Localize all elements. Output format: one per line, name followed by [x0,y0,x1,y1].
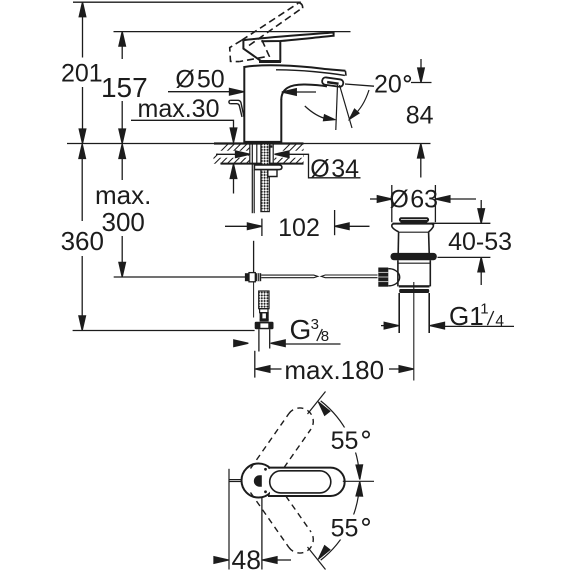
G3/8 threaded stub [259,329,270,351]
mounting nut [268,170,277,177]
dimension 360 [79,144,86,330]
label max.30 with leader [131,120,237,142]
dimension 201 [79,2,86,143]
drain pop-up waste: cap [400,218,428,222]
svg-text:max.: max. [95,180,151,210]
arrow max30 below deck [230,164,237,194]
hose nut G3/8 [255,322,274,329]
svg-text:4: 4 [495,313,504,330]
Ø34 hole arrows and label [218,151,303,158]
dimension max.180 [255,351,414,378]
arrow at spout right edge (Ø50 pair) [282,89,316,96]
svg-text:max.30: max.30 [138,95,220,123]
stream lines 20° [336,85,352,130]
reference line at 360 bottom [73,330,255,332]
svg-text:G: G [290,314,312,345]
deck hatching [206,143,323,166]
drain bottom nut [399,285,430,287]
mounting deck [67,144,431,164]
plan view: lever inner slot [270,471,331,493]
svg-text:20: 20 [374,71,402,99]
dimension 40-53 [431,200,491,285]
label G1 1/4 with arrows [381,322,514,329]
extension line top of raised lever (201 ref) [73,1,301,3]
svg-text:1: 1 [480,300,488,317]
svg-text:3: 3 [311,316,319,333]
dimension 84 [411,59,432,178]
dashed lever rotated down 55° [251,493,314,554]
threaded shank (knurled) [261,144,269,212]
lever handle (rest position) [243,33,333,62]
label 20° with leader [345,84,374,86]
dashed lever rotated up 55° [251,408,314,469]
side pipe right of shank [270,144,273,165]
extension line lever rest top (157 ref) [114,31,351,33]
rod coupling [245,273,261,282]
drain flange and neck [392,224,435,253]
svg-text:Ø34: Ø34 [310,155,359,183]
label G3/8 with arrows [234,340,341,347]
svg-text:300: 300 [102,207,145,237]
svg-text:Ø63: Ø63 [389,186,438,214]
pop-up rod knob at body rear [229,100,244,117]
under-deck: supply pipes [250,144,257,214]
lever raised (dashed) [230,3,303,61]
plan view: handle circle [242,464,276,498]
centerline at lever tip [343,480,374,482]
dimension 157 [119,32,126,144]
plan view: dots [264,468,267,471]
svg-text:Ø50: Ø50 [175,66,224,94]
drain Ø63 extension ticks [392,185,436,222]
plan view: pop-up rod [229,479,242,481]
stream swing arcs with arrows [305,90,369,123]
svg-text:55: 55 [331,427,359,455]
drain side knob (knurled) [378,268,388,287]
plan view: cartridge mark [254,475,262,486]
dimension 48 [214,497,292,570]
svg-text:48: 48 [232,545,261,570]
svg-text:40-53: 40-53 [448,228,512,256]
svg-text:102: 102 [278,214,320,242]
svg-text:G1: G1 [449,301,484,331]
horseshoe washer [254,165,282,170]
svg-text:84: 84 [406,102,434,130]
svg-text:55: 55 [331,515,359,543]
svg-text:360: 360 [61,226,104,256]
drain body below seal [398,260,430,286]
dimension max.300 [119,144,126,277]
svg-text:max.180: max.180 [284,355,384,385]
dimension Ø63 [370,196,476,203]
dimension 102 [225,210,370,236]
label 55° upper [327,427,373,455]
swing arc upper 55° [316,400,363,480]
drain rubber seal [391,253,437,260]
svg-text:8: 8 [321,328,329,345]
aerator [322,77,344,87]
hose crimp sleeve [260,309,269,322]
radial extension lines 55° [308,392,326,415]
faucet body [244,65,346,143]
knob connector [388,269,399,286]
label Ø50 with leader arrow [168,88,244,95]
label 55° lower [327,515,373,543]
tailpipe G1 1/4 [399,293,429,333]
horizontal rod / max300 reference line [114,276,246,278]
pop-up rod (vertical) [253,241,255,273]
plan view: lever capsule [270,468,345,496]
svg-text:201: 201 [61,60,103,88]
swing arc lower 55° [316,481,363,561]
drain centerline [413,282,415,381]
flexible hose end (braided) [259,291,269,309]
